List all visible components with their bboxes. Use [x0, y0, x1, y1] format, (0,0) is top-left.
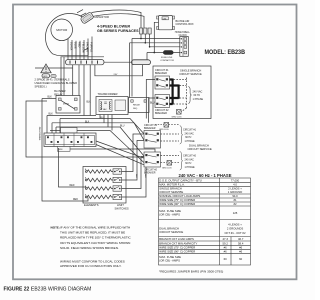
svg-text:24 VAC: 24 VAC — [100, 108, 107, 111]
svg-text:REPLACED WITH TYPE 105° C THER: REPLACED WITH TYPE 105° C THERMOPLASTIC — [60, 236, 131, 240]
wire LS2 to breaker CB2 pole2 — [122, 141, 145, 181]
note block — [51, 225, 132, 268]
capacitor wire to terminal — [92, 10, 142, 28]
blower control box label — [176, 20, 194, 26]
svg-text:BLU: BLU — [120, 125, 125, 127]
svg-text:PURPLE: PURPLE — [89, 42, 93, 52]
heating elements enclosure — [83, 167, 126, 204]
svg-text:SEQ.: SEQ. — [133, 108, 138, 110]
svg-text:#6: #6 — [239, 249, 243, 253]
svg-text:WIRE SIZE (75° C) COPPER: WIRE SIZE (75° C) COPPER — [159, 198, 195, 202]
circuit 2 service label — [183, 155, 197, 169]
ground lug dual 1 — [155, 123, 169, 132]
svg-text:MAX. FUSE SIZE: MAX. FUSE SIZE — [159, 209, 181, 213]
heating element HE1 — [85, 168, 114, 173]
svg-text:59.2: 59.2 — [223, 241, 229, 245]
svg-text:IF ANY OF THE ORIGINAL WIRE SU: IF ANY OF THE ORIGINAL WIRE SUPPLIED WIT… — [60, 225, 130, 229]
wire BLK horizontal band h1 — [47, 114, 96, 133]
wire bar to capsule TB2 — [104, 61, 132, 63]
svg-text:WIRE SIZE (90° C) COPPER: WIRE SIZE (90° C) COPPER — [159, 202, 195, 206]
svg-text:BROWN: BROWN — [85, 42, 89, 52]
wire to clock pin 1 — [132, 38, 180, 40]
wire to clock pin 2 — [130, 42, 180, 44]
240 VAC single label — [193, 91, 204, 101]
wire 24v return loop — [26, 101, 155, 161]
svg-text:BRANCH CKT MIN AMPACITY: BRANCH CKT MIN AMPACITY — [159, 241, 197, 245]
svg-text:NOMINAL CIRCUIT LOAD AMPS: NOMINAL CIRCUIT LOAD AMPS — [159, 194, 200, 198]
wire BLK to relay — [42, 97, 56, 99]
svg-text:46.7: 46.7 — [238, 237, 244, 241]
svg-text:SINGLE BRANCH: SINGLE BRANCH — [159, 187, 181, 191]
svg-text:DUAL BRANCH: DUAL BRANCH — [159, 227, 179, 231]
wire to control box — [154, 22, 158, 52]
svg-text:GRD: GRD — [43, 76, 48, 78]
svg-text:RED: RED — [73, 199, 78, 201]
circuit breaker CB1a — [155, 76, 170, 89]
limit switches label — [115, 203, 129, 210]
svg-text:GRD LUG: GRD LUG — [159, 129, 169, 131]
single branch service label — [179, 69, 202, 76]
svg-text:60 Hz: 60 Hz — [194, 94, 201, 97]
node junction dot — [153, 52, 155, 54]
svg-text:1 GROUND: 1 GROUND — [228, 190, 243, 194]
svg-text:YELLOW: YELLOW — [81, 42, 85, 53]
blower relay K1 — [56, 96, 80, 114]
svg-text:BLUE: BLUE — [73, 42, 77, 49]
svg-text:CKT #1 - CKT #2: CKT #1 - CKT #2 — [225, 231, 246, 235]
dual branch service label — [188, 143, 212, 151]
brace single service — [188, 87, 191, 104]
svg-text:ELEMENTS: ELEMENTS — [84, 203, 99, 207]
wire band h2 — [60, 115, 144, 134]
jumper bar 1 — [170, 79, 173, 105]
svg-text:WIRE SIZE (90° C) COPPER: WIRE SIZE (90° C) COPPER — [159, 249, 195, 253]
svg-text:#6: #6 — [224, 245, 228, 249]
svg-text:60: 60 — [224, 257, 228, 261]
wire left riser BLK — [42, 99, 88, 202]
svg-text:BREAKER: BREAKER — [144, 127, 156, 130]
wire capsule lower run — [95, 65, 143, 76]
svg-text:GB SERIES FURNACES: GB SERIES FURNACES — [97, 29, 139, 33]
svg-text:CONTACTOR: CONTACTOR — [160, 59, 174, 62]
svg-text:D.O.E. OUTPUT CAPACITY - BTU: D.O.E. OUTPUT CAPACITY - BTU — [159, 178, 201, 182]
wire T3 drop — [149, 34, 151, 47]
svg-text:CIRCUIT #1: CIRCUIT #1 — [183, 129, 197, 132]
svg-text:1 PHASE: 1 PHASE — [193, 98, 204, 101]
dual circuit 2 breaker label — [144, 168, 158, 174]
brace circuit 1 — [180, 126, 183, 145]
svg-text:125: 125 — [233, 211, 238, 215]
svg-text:USED WHEN CHANGING BLOWER: USED WHEN CHANGING BLOWER — [35, 81, 78, 85]
fan switch box — [61, 128, 78, 134]
svg-text:BLK: BLK — [87, 101, 92, 103]
svg-text:RED: RED — [77, 42, 81, 48]
sequencer relay K2 — [129, 98, 150, 113]
jumper bar 2 — [170, 85, 179, 99]
thermostat terminal strip TB3 — [44, 133, 96, 147]
svg-text:CIRCUIT SERVICE: CIRCUIT SERVICE — [188, 147, 212, 151]
heating element HE2 — [85, 176, 114, 181]
svg-text:GRD LUG: GRD LUG — [162, 168, 172, 170]
wire band h5 — [50, 115, 144, 163]
note 2 spade terminals — [35, 78, 78, 89]
svg-text:APPROVED FOR CU CONDUCTORS ONL: APPROVED FOR CU CONDUCTORS ONLY. — [60, 264, 122, 268]
spec table — [159, 178, 251, 265]
wire fuse link run — [147, 53, 180, 61]
svg-text:WIRING MUST CONFORM TO LOCAL C: WIRING MUST CONFORM TO LOCAL CODES — [60, 260, 125, 264]
wire band h3 — [52, 115, 144, 141]
figure caption — [4, 287, 92, 293]
ground lug GRD — [42, 74, 56, 78]
honeywell clock connector J1 — [180, 37, 189, 57]
wire LS4 to breaker CB3 pole2 — [122, 163, 147, 197]
motor terminal bar TB1 — [66, 60, 105, 65]
svg-text:BREAKER: BREAKER — [144, 171, 156, 174]
motor lead wires bundle — [68, 37, 93, 60]
fuse link label — [160, 57, 174, 62]
svg-text:LIMIT: LIMIT — [117, 203, 124, 207]
circuit 1 service label — [183, 129, 197, 143]
ground lug dual 2 — [162, 161, 172, 170]
heating element HE3 — [85, 185, 114, 190]
circuit breaker CB2 — [144, 131, 161, 149]
svg-text:OR ITS EQUIVALENT. FACTORY WIR: OR ITS EQUIVALENT. FACTORY WIRING SHOWN — [60, 241, 130, 245]
limit switch LS4 — [113, 194, 122, 199]
wire strip diag 1 — [96, 141, 144, 158]
wire strip diag 2 — [96, 145, 144, 165]
svg-text:RED: RED — [70, 185, 75, 187]
wire to clock pin 3 — [149, 46, 180, 48]
svg-text:MAX. MOTOR F.L.A.: MAX. MOTOR F.L.A. — [159, 182, 185, 186]
svg-text:CB1: CB1 — [163, 18, 167, 20]
wire transformer feed 2 — [129, 43, 131, 98]
svg-text:2 LEADS +: 2 LEADS + — [228, 187, 242, 191]
svg-text:BLACK: BLACK — [69, 42, 73, 51]
svg-text:60 Hz: 60 Hz — [185, 162, 192, 165]
title 4-speed blower — [97, 24, 139, 32]
anticipator box — [58, 147, 71, 152]
svg-text:24V: 24V — [114, 74, 118, 76]
blower control box A1 — [157, 16, 175, 30]
transformer TR1 — [96, 97, 128, 115]
svg-text:WIRE SIZE (75° C) COPPER: WIRE SIZE (75° C) COPPER — [159, 245, 195, 249]
svg-text:RELAY: RELAY — [133, 104, 141, 107]
svg-text:CIRCUIT SERVICE: CIRCUIT SERVICE — [179, 72, 202, 76]
svg-text:240 VAC: 240 VAC — [193, 91, 203, 94]
svg-text:4.0: 4.0 — [233, 182, 237, 186]
svg-text:NOTE:: NOTE: — [51, 225, 60, 229]
limit switch LS3 — [113, 186, 122, 191]
wire LS1 to breaker CB2 pole1 — [122, 134, 145, 172]
blower relay label — [54, 89, 65, 96]
circuit 1 breaker label — [155, 69, 169, 75]
capacitor wire 2 — [93, 14, 144, 28]
svg-text:#6: #6 — [239, 245, 243, 249]
svg-text:47.3: 47.3 — [223, 237, 229, 241]
dual field wires circuit 1 — [161, 125, 180, 141]
svg-text:CIRCUIT #2: CIRCUIT #2 — [183, 155, 197, 158]
svg-text:4-SPEED BLOWER: 4-SPEED BLOWER — [97, 24, 131, 28]
svg-text:*REQUIRES JUMPER BARS (P/N 350: *REQUIRES JUMPER BARS (P/N 3500-279S) — [159, 269, 223, 273]
svg-text:SPEEDS.): SPEEDS.) — [35, 85, 47, 89]
svg-text:MOTOR: MOTOR — [56, 28, 68, 32]
wire sb feeder 1 — [146, 80, 155, 119]
wire transformer feed 1 — [131, 39, 133, 97]
circuit breaker CB1b — [155, 95, 170, 108]
svg-text:THIS UNIT MUST BE REPLACED, IT: THIS UNIT MUST BE REPLACED, IT MUST BE — [60, 231, 125, 235]
quick-connect terminal T2 — [144, 28, 147, 34]
svg-text:94.0: 94.0 — [232, 194, 238, 198]
svg-text:GRD LUG: GRD LUG — [172, 116, 182, 118]
wire bar-left drop 1 — [60, 57, 62, 96]
brace circuit 2 — [180, 152, 183, 171]
svg-text:58.4: 58.4 — [238, 241, 244, 245]
single branch service enclosure — [153, 66, 211, 119]
field wiring dashed main — [174, 78, 187, 112]
heating element HE4 — [85, 193, 114, 198]
wire T1 drop — [140, 34, 142, 39]
quick-connect terminal T1 — [140, 28, 143, 34]
svg-text:BREAKER: BREAKER — [155, 72, 167, 75]
svg-text:BREAKER: BREAKER — [155, 112, 167, 115]
svg-text:FIGURE 22 :: FIGURE 22 : — [4, 287, 33, 293]
svg-text:#2: #2 — [233, 202, 237, 206]
capacitor C1 — [80, 12, 94, 24]
svg-text:FUSE LINK: FUSE LINK — [161, 57, 173, 59]
circuit breaker CB3 — [144, 152, 161, 167]
dual circuit 1 breaker label — [144, 124, 158, 130]
wire strip lower run — [70, 149, 155, 161]
svg-text:MODEL: EB23B: MODEL: EB23B — [205, 49, 246, 56]
wire LS3 to breaker CB3 pole1 — [122, 157, 145, 189]
svg-text:CONTROL BOX: CONTROL BOX — [176, 23, 194, 26]
motor M1 — [51, 19, 73, 41]
svg-text:77,000: 77,000 — [231, 178, 240, 182]
svg-text:BRANCH CKT LOAD AMPS: BRANCH CKT LOAD AMPS — [159, 237, 194, 241]
svg-text:(OR CB) - AMPS: (OR CB) - AMPS — [159, 212, 180, 216]
svg-text:M1 M2: M1 M2 — [63, 104, 70, 106]
wire band h4 — [56, 115, 144, 157]
wire sb feeder 2 — [149, 98, 155, 123]
circuit 2 breaker label — [155, 109, 169, 115]
svg-text:#1: #1 — [233, 198, 237, 202]
svg-text:TRANSFORMER: TRANSFORMER — [98, 92, 118, 96]
svg-text:BLK: BLK — [48, 97, 53, 99]
svg-text:(OR CB) - AMPS: (OR CB) - AMPS — [159, 258, 180, 262]
svg-text:SWITCHES: SWITCHES — [115, 207, 129, 211]
svg-text:MAX. FUSE SIZE: MAX. FUSE SIZE — [159, 255, 181, 259]
quick-connect terminal T3 — [148, 28, 151, 34]
svg-text:2 SPADE (M-F), (TERMINALS: 2 SPADE (M-F), (TERMINALS — [35, 78, 70, 82]
fuse link F1 — [163, 50, 174, 54]
limit switch LS1 — [113, 169, 122, 174]
wire above bar — [61, 56, 105, 58]
svg-text:1 PHASE: 1 PHASE — [185, 166, 196, 169]
wire bar-left drop 2 — [63, 57, 65, 96]
wire drops below bar — [73, 65, 91, 116]
ground warning triangle — [41, 64, 51, 73]
svg-text:THERMOSTAT: THERMOSTAT — [39, 126, 42, 141]
svg-text:SOLID. FIELD WIRING SHOWN BROK: SOLID. FIELD WIRING SHOWN BROKEN. — [60, 246, 119, 250]
svg-text:#6: #6 — [224, 249, 228, 253]
svg-text:BLU: BLU — [150, 102, 155, 104]
svg-text:240 VAC - 60 Hz - 1 PHASE: 240 VAC - 60 Hz - 1 PHASE — [179, 173, 232, 178]
svg-text:240 VAC: 240 VAC — [185, 132, 195, 135]
honeywell clock label — [175, 31, 191, 37]
wire from ground triangle to bar — [35, 67, 73, 69]
svg-text:240 VAC: 240 VAC — [185, 158, 195, 161]
svg-text:EB23B WIRING DIAGRAM: EB23B WIRING DIAGRAM — [31, 287, 91, 293]
svg-text:2 GROUNDS: 2 GROUNDS — [227, 227, 244, 231]
limit switch LS2 — [113, 177, 122, 182]
wire red riser element 3 — [59, 148, 87, 187]
terminal capsule TB2 — [132, 60, 151, 65]
svg-text:60 Hz: 60 Hz — [185, 136, 192, 139]
dual field wires circuit 2 — [161, 155, 180, 162]
svg-text:60: 60 — [239, 257, 243, 261]
svg-text:BLK: BLK — [49, 114, 54, 116]
ground lug single — [172, 110, 182, 119]
svg-text:4 LEADS +: 4 LEADS + — [228, 223, 242, 227]
blower motor B1 scroll housing — [45, 10, 88, 56]
wire T2 drop — [144, 34, 146, 43]
svg-text:CIRCUIT SERVICE: CIRCUIT SERVICE — [159, 230, 183, 234]
spec table text — [159, 178, 246, 262]
